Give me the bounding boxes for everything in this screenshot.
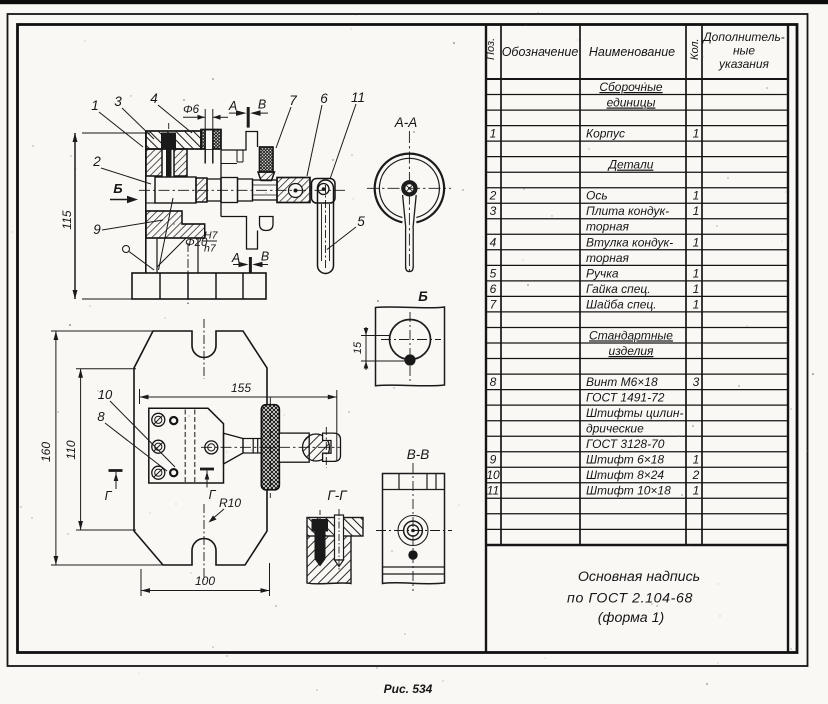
svg-text:1: 1 <box>91 98 99 113</box>
screw cylinder <box>279 433 309 462</box>
svg-text:Шайба спец.: Шайба спец. <box>586 297 657 311</box>
base centerline <box>187 243 189 304</box>
svg-text:6: 6 <box>490 282 497 296</box>
svg-text:указания: указания <box>718 57 769 71</box>
svg-text:4: 4 <box>150 91 158 106</box>
svg-text:5: 5 <box>490 266 497 280</box>
svg-text:1: 1 <box>693 282 700 296</box>
svg-text:Обозначение: Обозначение <box>502 45 579 59</box>
dimension 160 <box>39 331 163 565</box>
centerlines <box>381 339 441 341</box>
svg-text:9: 9 <box>93 222 101 237</box>
handle fork <box>323 433 341 461</box>
svg-text:2: 2 <box>92 154 101 169</box>
label 9 leader <box>93 220 163 237</box>
svg-text:Плита кондук-: Плита кондук- <box>586 204 669 218</box>
leader lines near phi20 <box>157 238 186 267</box>
label 7 leader <box>276 93 297 148</box>
plan axis centerline <box>201 446 341 448</box>
handle shaft <box>405 228 407 268</box>
svg-text:Б: Б <box>113 181 122 196</box>
part 3 jig plate top flange (hatched) <box>146 131 201 149</box>
svg-text:1: 1 <box>693 453 700 467</box>
dimension 15 <box>352 327 406 370</box>
svg-text:8: 8 <box>490 375 497 389</box>
housing outer left edge <box>145 131 147 273</box>
label 3 leader <box>114 94 154 139</box>
svg-text:Штифты цилин-: Штифты цилин- <box>586 406 683 420</box>
hidden slot dashed lines <box>184 410 186 483</box>
svg-text:160: 160 <box>39 442 53 462</box>
label 4 leader <box>150 91 192 133</box>
screw heads (item 8) <box>152 413 165 479</box>
svg-text:Ось: Ось <box>586 189 608 203</box>
svg-text:155: 155 <box>231 381 251 395</box>
table grid bottom line <box>486 544 788 546</box>
part 3 plate profile (staircase outline) <box>221 132 273 250</box>
handle neck <box>403 195 406 228</box>
svg-text:1: 1 <box>693 235 700 249</box>
dimension phi20 H7/h7 <box>185 230 219 255</box>
pin filled <box>408 550 417 559</box>
jig plate block <box>149 408 224 483</box>
svg-text:Винт М6×18: Винт М6×18 <box>586 375 658 389</box>
svg-text:10: 10 <box>98 387 113 402</box>
top band <box>383 489 445 491</box>
svg-text:h7: h7 <box>204 243 217 255</box>
svg-text:Φ6: Φ6 <box>183 104 200 116</box>
svg-text:Рис. 534: Рис. 534 <box>384 682 433 696</box>
center bolt <box>205 441 218 454</box>
lower block hatched <box>307 536 351 584</box>
centerlines <box>367 187 451 189</box>
wheel rim inner <box>379 158 439 217</box>
column line Poz <box>500 25 502 546</box>
table right edge <box>787 25 789 653</box>
svg-text:торная: торная <box>586 220 629 234</box>
dimension phi6 <box>183 104 228 130</box>
table left edge <box>485 25 487 653</box>
notch centerlines <box>203 319 205 379</box>
part 1 housing wall (hatched) <box>146 149 187 176</box>
svg-text:Г: Г <box>209 488 217 502</box>
column line Naimenovanie <box>685 25 687 546</box>
label 2 leader <box>92 154 151 184</box>
column line Oboznachenie <box>579 25 581 546</box>
svg-text:1: 1 <box>693 297 700 311</box>
svg-text:10: 10 <box>486 468 500 482</box>
dimension 115 line <box>60 133 150 299</box>
view arrow B (Б) <box>110 181 138 203</box>
label 10 leader <box>98 387 175 467</box>
section marker Г right <box>200 469 217 502</box>
label 1 leader <box>91 98 143 147</box>
svg-text:Стандартные: Стандартные <box>589 328 673 342</box>
screw 8 in section (dark) <box>161 123 176 177</box>
svg-text:В: В <box>258 98 266 112</box>
svg-text:Г: Г <box>105 489 113 503</box>
ball end hatched <box>303 434 330 461</box>
base plate <box>132 273 266 299</box>
dimension 155 <box>140 381 337 461</box>
svg-text:R10: R10 <box>219 496 241 510</box>
wheel rim outer <box>375 154 444 223</box>
svg-text:Штифт 8×24: Штифт 8×24 <box>586 468 664 482</box>
svg-text:11: 11 <box>351 90 365 105</box>
svg-text:Втулка кондук-: Втулка кондук- <box>586 235 673 249</box>
svg-text:ГОСТ 1491-72: ГОСТ 1491-72 <box>586 391 665 405</box>
column line Kol <box>701 25 703 546</box>
clamp cone <box>224 433 244 464</box>
svg-text:(форма 1): (форма 1) <box>598 610 665 626</box>
svg-text:по ГОСТ 2.104-68: по ГОСТ 2.104-68 <box>567 591 693 607</box>
top scan black bar <box>0 0 828 4</box>
block outline <box>383 474 445 584</box>
svg-text:Б: Б <box>418 289 428 304</box>
bushing concentric circles <box>398 516 428 546</box>
svg-text:Детали: Детали <box>607 158 654 172</box>
svg-text:единицы: единицы <box>607 96 656 110</box>
datum flag <box>123 246 155 271</box>
top bar hatched <box>307 518 363 537</box>
svg-text:Гайка спец.: Гайка спец. <box>586 282 651 296</box>
radius R10 leader <box>209 496 242 523</box>
svg-text:110: 110 <box>64 440 78 459</box>
axle shaft steps <box>207 178 277 203</box>
bottom band <box>383 566 445 568</box>
svg-text:Ручка: Ручка <box>586 266 619 280</box>
svg-text:А: А <box>228 99 237 113</box>
svg-text:1: 1 <box>693 266 700 280</box>
svg-text:2: 2 <box>489 189 497 203</box>
svg-text:Кол.: Кол. <box>689 38 701 60</box>
part 7 knurled special nut <box>258 147 275 181</box>
svg-text:7: 7 <box>289 93 297 108</box>
part 5 handle boss with pin 11 <box>312 179 336 204</box>
svg-text:115: 115 <box>60 210 74 229</box>
svg-text:11: 11 <box>487 484 499 498</box>
svg-text:Г-Г: Г-Г <box>327 488 348 503</box>
bore opening <box>146 176 155 203</box>
section marker Г left <box>105 471 123 504</box>
svg-text:торная: торная <box>586 251 629 265</box>
hub <box>401 180 417 196</box>
fork pivot centerline <box>325 427 327 468</box>
svg-text:ГОСТ 3128-70: ГОСТ 3128-70 <box>586 437 665 451</box>
section plane A-B marker top <box>228 98 268 128</box>
svg-text:Сборочные: Сборочные <box>599 80 663 94</box>
svg-text:В: В <box>261 250 269 264</box>
base plate outline with notches <box>134 331 267 565</box>
svg-text:1: 1 <box>693 204 700 218</box>
main axis centerline <box>139 189 347 191</box>
svg-text:1: 1 <box>693 189 700 203</box>
section plane A-B marker bottom <box>231 250 269 273</box>
svg-text:2: 2 <box>692 468 700 482</box>
svg-text:дрические: дрические <box>586 422 644 436</box>
part 4 drill bushing (cross-hatched) <box>201 130 221 164</box>
svg-text:Штифт 6×18: Штифт 6×18 <box>586 453 664 467</box>
svg-text:8: 8 <box>97 409 105 424</box>
bushing circle <box>390 320 431 360</box>
svg-text:Штифт 10×18: Штифт 10×18 <box>586 484 671 498</box>
svg-text:Корпус: Корпус <box>586 127 625 141</box>
svg-text:3: 3 <box>490 204 497 218</box>
svg-text:6: 6 <box>320 91 328 106</box>
pins (items 9,10) <box>170 417 177 424</box>
centerlines <box>412 463 414 591</box>
svg-text:100: 100 <box>195 574 215 588</box>
svg-text:3: 3 <box>114 94 122 109</box>
header bottom line <box>486 78 788 80</box>
svg-text:3: 3 <box>693 375 700 389</box>
pedestal <box>157 238 198 273</box>
svg-text:Наименование: Наименование <box>589 45 675 59</box>
part 2 axle head <box>155 177 196 203</box>
svg-text:4: 4 <box>490 235 497 249</box>
clamp shaft w/ hex <box>243 439 262 454</box>
svg-text:ные: ные <box>733 44 755 58</box>
dimension 100 <box>141 563 270 596</box>
label 8 leader <box>97 409 167 471</box>
screw in section (dark) <box>312 510 329 567</box>
svg-text:Поз.: Поз. <box>485 38 497 60</box>
svg-text:В-В: В-В <box>407 447 430 462</box>
svg-text:А-А: А-А <box>394 115 418 130</box>
pin (filled) <box>404 354 415 365</box>
svg-text:изделия: изделия <box>609 344 654 358</box>
svg-text:5: 5 <box>357 214 365 229</box>
table row lines <box>486 95 788 530</box>
plate outline with broken edges <box>376 307 445 386</box>
housing boss (hatched) <box>196 178 207 202</box>
label 11 leader <box>330 90 365 179</box>
svg-text:Основная надпись: Основная надпись <box>578 569 700 585</box>
dimension 110 <box>64 369 136 530</box>
svg-text:1: 1 <box>693 484 700 498</box>
svg-text:1: 1 <box>693 127 700 141</box>
part 6 special nut (hatched) with pin hole <box>277 178 310 203</box>
knurled handwheel <box>261 397 279 498</box>
svg-text:1: 1 <box>490 127 497 141</box>
part 5 handle (capsule) <box>318 180 334 274</box>
pin in section (white) <box>335 509 344 571</box>
svg-text:Дополнитель-: Дополнитель- <box>701 30 785 44</box>
svg-text:9: 9 <box>490 453 497 467</box>
svg-text:H7: H7 <box>204 230 219 242</box>
label 6 leader <box>307 91 328 176</box>
workpiece / lower flange (hatched L) <box>146 211 205 238</box>
svg-text:15: 15 <box>352 341 364 354</box>
label 5 leader <box>327 214 365 250</box>
